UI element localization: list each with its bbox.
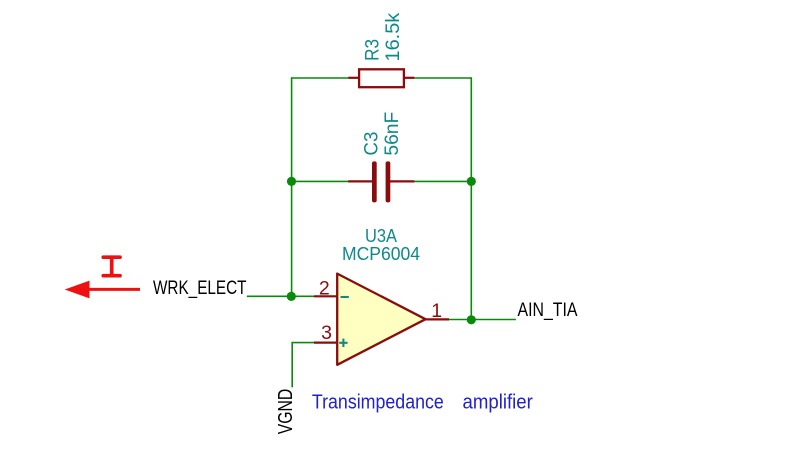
- wire: right vertical rail: [470, 77, 472, 319]
- wire: input wire from WRK_ELECT to pin 2: [247, 295, 314, 297]
- inverting input minus sign: [341, 296, 349, 298]
- svg-text:Transimpedance: Transimpedance: [312, 391, 444, 414]
- current arrow head: [65, 281, 90, 299]
- junction dot at left rail / capacitor: [287, 177, 296, 186]
- wire: capacitor branch left segment: [292, 180, 349, 182]
- pin 1 lead: [426, 318, 450, 320]
- wire: pin 3 to VGND: [292, 343, 314, 388]
- capacitor C3: [348, 161, 414, 202]
- wire: top feedback left segment: [292, 77, 349, 79]
- svg-text:C3: C3: [360, 132, 382, 156]
- svg-text:WRK_ELECT: WRK_ELECT: [153, 278, 247, 299]
- current label I: [103, 257, 120, 276]
- junction dot at output node: [467, 315, 476, 324]
- junction dot at input node: [287, 292, 296, 301]
- svg-text:56nF: 56nF: [381, 112, 403, 156]
- svg-text:AIN_TIA: AIN_TIA: [518, 300, 578, 321]
- svg-text:R3: R3: [361, 39, 383, 61]
- svg-text:2: 2: [319, 277, 330, 299]
- svg-text:16.5k: 16.5k: [382, 12, 404, 61]
- current arrow shaft: [88, 288, 140, 291]
- wire: left vertical rail: [291, 77, 293, 296]
- non-inverting input plus sign: [339, 339, 347, 347]
- svg-text:MCP6004: MCP6004: [342, 244, 420, 264]
- op-amp U3A body: [337, 274, 425, 365]
- wire: top feedback right segment: [414, 77, 471, 79]
- wire: output wire to AIN_TIA: [449, 319, 516, 321]
- junction dot at right rail / capacitor: [467, 177, 476, 186]
- pin 3 lead: [314, 342, 337, 344]
- wire: capacitor branch right segment: [414, 180, 471, 182]
- svg-text:amplifier: amplifier: [463, 391, 533, 414]
- svg-text:1: 1: [431, 300, 442, 322]
- svg-text:3: 3: [321, 322, 332, 344]
- svg-text:VGND: VGND: [275, 389, 297, 435]
- resistor R3: [348, 69, 414, 87]
- pin 2 lead: [314, 295, 337, 297]
